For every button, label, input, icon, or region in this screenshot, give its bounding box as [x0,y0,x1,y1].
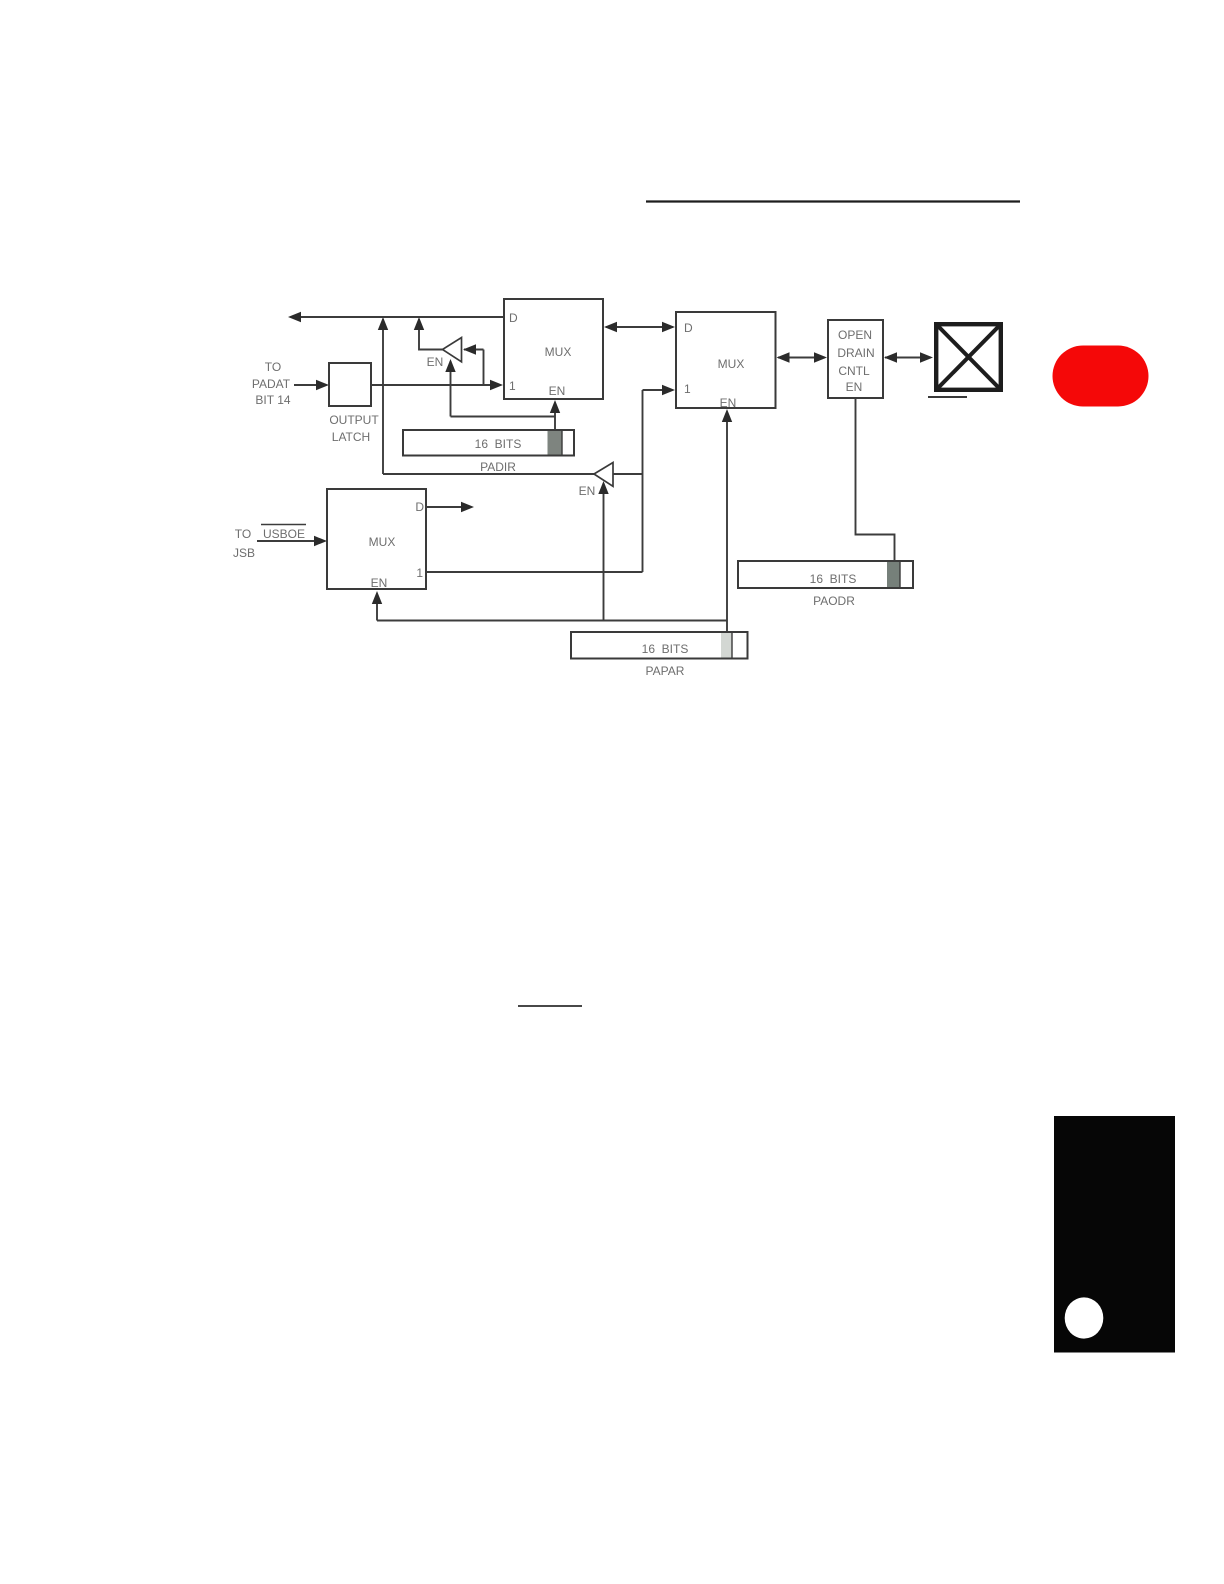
svg-text:EN: EN [427,355,444,369]
output latch [329,363,371,406]
wire: PADAT input [294,384,317,386]
svg-text:MUX: MUX [545,345,572,359]
wire: PADIR bit to U1 EN [554,403,556,430]
arrowhead: into U2 D [662,322,675,332]
svg-text:1: 1 [509,379,516,393]
mux U1 [504,299,603,399]
svg-text:D: D [684,321,693,335]
wire: U3 output D [426,506,462,508]
svg-text:EN: EN [579,484,596,498]
wire: open-drain to pad bidirectional [885,357,931,359]
wire: U3 output 1 to U2 [426,571,643,573]
register PAPAR body [571,632,748,659]
arrowhead: into output latch [316,380,329,390]
footer page dot [1065,1297,1104,1338]
buffer B1 (output tri-state) [443,338,462,362]
footer black block [1054,1116,1175,1353]
register PADIR cell divider [561,430,563,456]
rule: pin-name underline [928,396,967,398]
arrowhead: B2 feedback into bus [378,317,388,330]
wire: top data bus to pin logic [292,316,504,318]
svg-text:1: 1 [684,382,691,396]
svg-text:EN: EN [371,576,388,590]
open-drain control block [828,320,883,398]
wire: U1-U2 bidirectional data [606,326,673,328]
register PAODR cell divider [899,561,901,588]
arrowhead: into U1 EN [550,400,560,413]
svg-text:PAODR: PAODR [813,594,855,608]
wire: B1 input riser from latch output [483,350,485,386]
svg-text:TO: TO [265,360,281,374]
wire: USBOE input to U3 [257,540,315,542]
register PAPAR cell divider [731,632,733,659]
rule: header underline [646,200,1020,202]
arrowhead: B2 enable [598,481,608,494]
arrowhead: into open-drain left [814,352,827,362]
arrowhead: bus left end [288,312,301,322]
wire: B1 enable riser [450,361,452,417]
arrowhead: into U2 EN [722,409,732,422]
svg-text:TO: TO [235,527,251,541]
wire: U3 EN riser [376,594,378,621]
svg-text:16 BITS: 16 BITS [475,437,522,451]
arrowhead: into U3 [314,536,327,546]
svg-text:OUTPUT: OUTPUT [329,413,379,427]
svg-text:D: D [415,500,424,514]
redaction pill (red) [1053,346,1149,407]
svg-text:PADAT: PADAT [252,377,291,391]
svg-text:PAPAR: PAPAR [646,664,685,678]
svg-text:16 BITS: 16 BITS [810,572,857,586]
svg-text:LATCH: LATCH [332,430,370,444]
svg-text:EN: EN [846,380,863,394]
register PAODR body [738,561,913,588]
svg-text:D: D [509,311,518,325]
wire: U2 to open-drain bidirectional [778,357,825,359]
svg-text:MUX: MUX [718,357,745,371]
arrowhead: U3 D output [461,502,474,512]
svg-text:JSB: JSB [233,546,255,560]
svg-text:MUX: MUX [369,535,396,549]
wire: enable run from PADIR node [451,416,556,418]
register PADIR body [403,430,574,456]
mux U3 [327,489,426,589]
register PAODR selected cell [887,562,900,587]
wire: U2 EN riser from PAPAR [726,412,728,632]
arrowhead: into U3 EN [372,591,382,604]
wire: B1 output to bus [419,319,443,350]
svg-text:CNTL: CNTL [838,364,870,378]
wire: input-buffer B2 output feedback riser [382,319,384,474]
arrowhead: into open-drain right [884,352,897,362]
svg-text:1: 1 [416,566,423,580]
rule: short mid-page line [518,1005,582,1007]
svg-text:PADIR: PADIR [480,460,516,474]
arrowhead: into U1 input 1 [490,380,503,390]
wire: B2 input stub [613,473,643,475]
register PADIR selected cell [548,431,563,455]
svg-text:DRAIN: DRAIN [837,346,874,360]
svg-text:OPEN: OPEN [838,328,872,342]
mux U2 [676,312,776,408]
wire: latch output to MUX U1 input 1 [371,384,491,386]
arrowhead: into U2 right [777,352,790,362]
svg-text:BIT 14: BIT 14 [255,393,290,407]
wire: U2 input 1 stub [643,389,664,391]
wire: PAPAR enable net [377,620,727,622]
wire: B2 enable riser [603,483,605,621]
pad (pin) symbol [936,324,1001,390]
arrowhead: B1 enable [445,359,455,372]
buffer B2 (input enable) [594,463,613,487]
wire: B1 input stub [464,349,484,351]
arrowhead: into U2 input 1 [662,385,675,395]
svg-text:EN: EN [720,396,737,410]
wire: U2 input riser [642,390,644,572]
svg-text:EN: EN [549,384,566,398]
arrowhead: into pad [920,352,933,362]
arrowhead: B1 output into bus [414,317,424,330]
arrowhead: into U1 [604,322,617,332]
wire: PAODR bit to open-drain EN [856,398,895,560]
wire: B2 output run [383,473,595,475]
register PAPAR selected cell [721,633,732,658]
svg-text:16 BITS: 16 BITS [642,642,689,656]
arrowhead: into B1 input [463,344,476,354]
svg-text:USBOE: USBOE [263,527,305,541]
